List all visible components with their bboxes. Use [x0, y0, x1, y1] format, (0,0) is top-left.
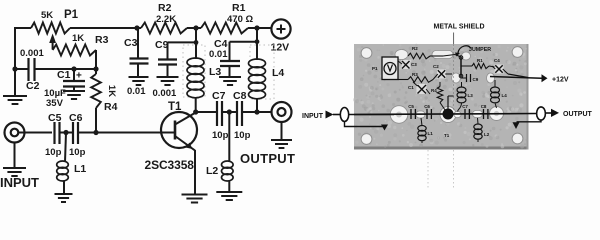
svg-text:C4: C4: [494, 58, 500, 63]
trimmer P1 (pcb): [382, 57, 398, 80]
node junction collector-L3: [193, 109, 198, 114]
svg-text:R2: R2: [158, 2, 172, 14]
capacitor C1 10uF electrolytic: [73, 69, 75, 81]
ground below T1 emitter: [182, 194, 208, 196]
node junction L2 top: [227, 109, 232, 114]
inductor L3: [195, 28, 197, 59]
pad mid big left: [390, 106, 408, 124]
svg-text:0.01: 0.01: [127, 86, 146, 97]
svg-text:R2: R2: [412, 46, 418, 51]
svg-text:10p: 10p: [234, 130, 251, 141]
capacitor C3 X (pcb): [402, 60, 411, 69]
svg-text:C2: C2: [26, 80, 40, 92]
svg-text:C6: C6: [69, 112, 83, 124]
node junction L1 top: [63, 130, 68, 135]
svg-text:1K: 1K: [106, 85, 117, 97]
inductor L2 (pcb): [474, 124, 482, 130]
svg-text:C1: C1: [57, 69, 71, 81]
capacitor C2 0.001: [27, 58, 29, 81]
svg-text:L2: L2: [206, 165, 218, 177]
mount hole bottom-right: [512, 133, 523, 144]
node junction rail-L4: [254, 25, 259, 30]
potentiometer P1 5K: [31, 23, 70, 34]
svg-text:JUMPER: JUMPER: [469, 47, 491, 53]
svg-text:R1: R1: [477, 58, 483, 63]
svg-text:0.001: 0.001: [20, 48, 44, 59]
capacitor C2 X (pcb): [437, 70, 446, 79]
shield box L4: [250, 45, 274, 99]
wire C6 to base: [78, 132, 175, 134]
pad right of C9: [487, 73, 495, 83]
pad mid stadium right: [473, 111, 483, 118]
wire R2 to R1: [187, 27, 201, 29]
svg-text:C3: C3: [124, 37, 138, 49]
ground below C2 node: [14, 69, 16, 96]
svg-text:C3: C3: [411, 62, 417, 67]
svg-text:L3: L3: [468, 93, 474, 98]
inductor L1 (pcb): [418, 126, 426, 132]
resistor R4 (pcb): [437, 87, 443, 103]
svg-text:C1: C1: [408, 85, 414, 90]
wire C2 to R4 node: [35, 68, 97, 70]
svg-text:10p: 10p: [45, 147, 62, 158]
capacitor C8 (pcb): [483, 109, 485, 119]
svg-text:L4: L4: [502, 93, 508, 98]
node junction C2-left: [12, 66, 17, 71]
connector input ellipse: [340, 108, 348, 122]
capacitor C6 10p: [72, 122, 74, 144]
svg-text:P1: P1: [64, 9, 79, 21]
PCB surface mottling: [409, 59, 412, 62]
svg-text:METAL SHIELD: METAL SHIELD: [434, 24, 485, 31]
svg-text:L2: L2: [484, 132, 490, 137]
svg-text:T1: T1: [444, 133, 450, 138]
shield box L3: [183, 45, 205, 97]
resistor R2 (pcb): [408, 53, 430, 59]
node junction C3 top: [134, 25, 139, 30]
svg-text:C7: C7: [462, 104, 468, 109]
wire rail P1 to C3 node: [70, 27, 141, 29]
svg-text:1K: 1K: [72, 33, 84, 44]
svg-text:T1: T1: [168, 101, 182, 113]
resistor R1 470: [201, 23, 248, 34]
mount hole bottom-left: [361, 134, 372, 145]
output ground stub: [517, 120, 542, 122]
svg-text:10p: 10p: [212, 130, 229, 141]
transistor T1 dot (pcb): [443, 109, 454, 120]
resistor R3 (pcb): [408, 77, 433, 83]
svg-text:L4: L4: [272, 67, 284, 79]
pad top stadium: [432, 51, 453, 59]
svg-text:0.001: 0.001: [153, 88, 177, 99]
arrow OUTPUT: [545, 112, 551, 114]
resistor R4 1K: [95, 69, 97, 74]
jumper arrow: [458, 46, 471, 53]
pad mid big right: [490, 107, 504, 121]
transistor T1 2SC3358: [161, 112, 197, 148]
capacitor C4 0.01: [230, 41, 258, 43]
mount hole top-left: [361, 48, 372, 59]
connector OUTPUT jack: [272, 102, 292, 122]
node junction L4 bottom: [254, 109, 259, 114]
svg-text:C8: C8: [233, 90, 247, 102]
ground below INPUT jack: [14, 143, 16, 169]
svg-text:C8: C8: [481, 104, 487, 109]
resistor R3 1K: [53, 45, 96, 56]
inductor L1: [65, 133, 66, 163]
svg-text:R3: R3: [95, 34, 109, 46]
svg-text:INPUT: INPUT: [302, 113, 324, 120]
svg-text:L3: L3: [209, 66, 221, 78]
svg-text:+: +: [76, 71, 82, 82]
connector output ellipse: [537, 107, 546, 120]
wire 12V feed: [490, 77, 542, 79]
input ground stub: [345, 122, 385, 127]
svg-text:35V: 35V: [46, 98, 64, 109]
wire jack to C5: [18, 132, 52, 134]
PCB board: [354, 44, 529, 150]
svg-text:2.2K: 2.2K: [156, 14, 176, 25]
scan artifact dotted lines: [427, 150, 429, 190]
svg-text:C5: C5: [408, 104, 414, 109]
node junction R4 top: [93, 66, 98, 71]
svg-text:R4: R4: [104, 101, 118, 113]
pad under T1: [440, 107, 456, 123]
mount hole top-right: [512, 47, 523, 58]
svg-text:12V: 12V: [271, 42, 290, 54]
svg-text:OUTPUT: OUTPUT: [563, 111, 593, 118]
node junction R4 bottom: [93, 130, 98, 135]
capacitor C5 10p: [53, 122, 55, 144]
capacitor C9 (pcb): [466, 74, 468, 82]
pad left of C9: [452, 73, 461, 83]
pad top small: [462, 52, 471, 60]
wire mid row line: [354, 114, 537, 115]
wire C5 to C6: [60, 132, 74, 134]
resistor R2 2.2K: [141, 23, 187, 34]
wire left vertical to node: [14, 28, 16, 72]
svg-text:R3: R3: [412, 72, 418, 77]
capacitor C3 0.01: [137, 28, 139, 58]
capacitor C7 10p: [216, 101, 218, 126]
svg-text:R4: R4: [431, 88, 437, 93]
pointer line metal shield: [453, 33, 455, 45]
svg-text:C2: C2: [433, 64, 439, 69]
svg-text:R1: R1: [232, 2, 246, 14]
pad mid stadium left: [416, 111, 425, 118]
capacitor C6 (pcb): [426, 109, 428, 119]
wire top rail left segment: [15, 28, 31, 69]
capacitor C1 X (pcb): [417, 84, 427, 94]
svg-text:C9: C9: [155, 39, 169, 51]
node junction rail-L3: [193, 25, 198, 30]
pad top oval: [395, 50, 408, 60]
pcb link wires: [398, 61, 402, 64]
svg-text:L1: L1: [428, 131, 434, 136]
arrow INPUT: [326, 111, 334, 119]
svg-text:OUTPUT: OUTPUT: [240, 151, 295, 166]
svg-text:P1: P1: [372, 66, 378, 71]
power terminal +12V: [271, 19, 290, 38]
ground below OUTPUT jack: [281, 122, 283, 140]
svg-text:470 Ω: 470 Ω: [227, 14, 253, 25]
node junction C1 top: [71, 66, 76, 71]
arrow +12V: [542, 74, 548, 82]
wire input onto board: [349, 114, 394, 116]
capacitor C9 0.001: [168, 41, 197, 43]
inductor L4: [256, 28, 258, 60]
svg-text:INPUT: INPUT: [0, 175, 39, 190]
svg-text:C5: C5: [48, 112, 62, 124]
wire C8 to output node: [242, 111, 271, 113]
svg-text:C7: C7: [212, 90, 226, 102]
svg-text:2SC3358: 2SC3358: [145, 158, 195, 172]
svg-text:+12V: +12V: [552, 77, 569, 84]
inductor L2: [228, 112, 230, 162]
wire input to connector: [333, 114, 341, 116]
svg-text:C6: C6: [424, 104, 430, 109]
inductor L3 (pcb): [457, 87, 466, 93]
svg-text:0.01: 0.01: [209, 49, 228, 60]
wire collector node to C7: [196, 111, 217, 113]
svg-text:5K: 5K: [41, 10, 53, 21]
pad right of T1: [454, 111, 461, 117]
capacitor C4 X (pcb): [495, 65, 504, 74]
connector INPUT jack: [5, 123, 25, 143]
inductor L4 (pcb): [491, 87, 500, 93]
capacitor C8 10p: [236, 101, 238, 126]
svg-text:C9: C9: [473, 77, 479, 82]
svg-text:10p: 10p: [69, 147, 86, 158]
jumper wire (pcb): [460, 57, 462, 77]
resistor R1 (pcb): [472, 63, 489, 68]
wire C7 to C8: [222, 111, 237, 113]
capacitor C5 (pcb): [410, 109, 412, 119]
svg-text:L1: L1: [74, 163, 86, 175]
capacitor C7 (pcb): [464, 109, 466, 119]
